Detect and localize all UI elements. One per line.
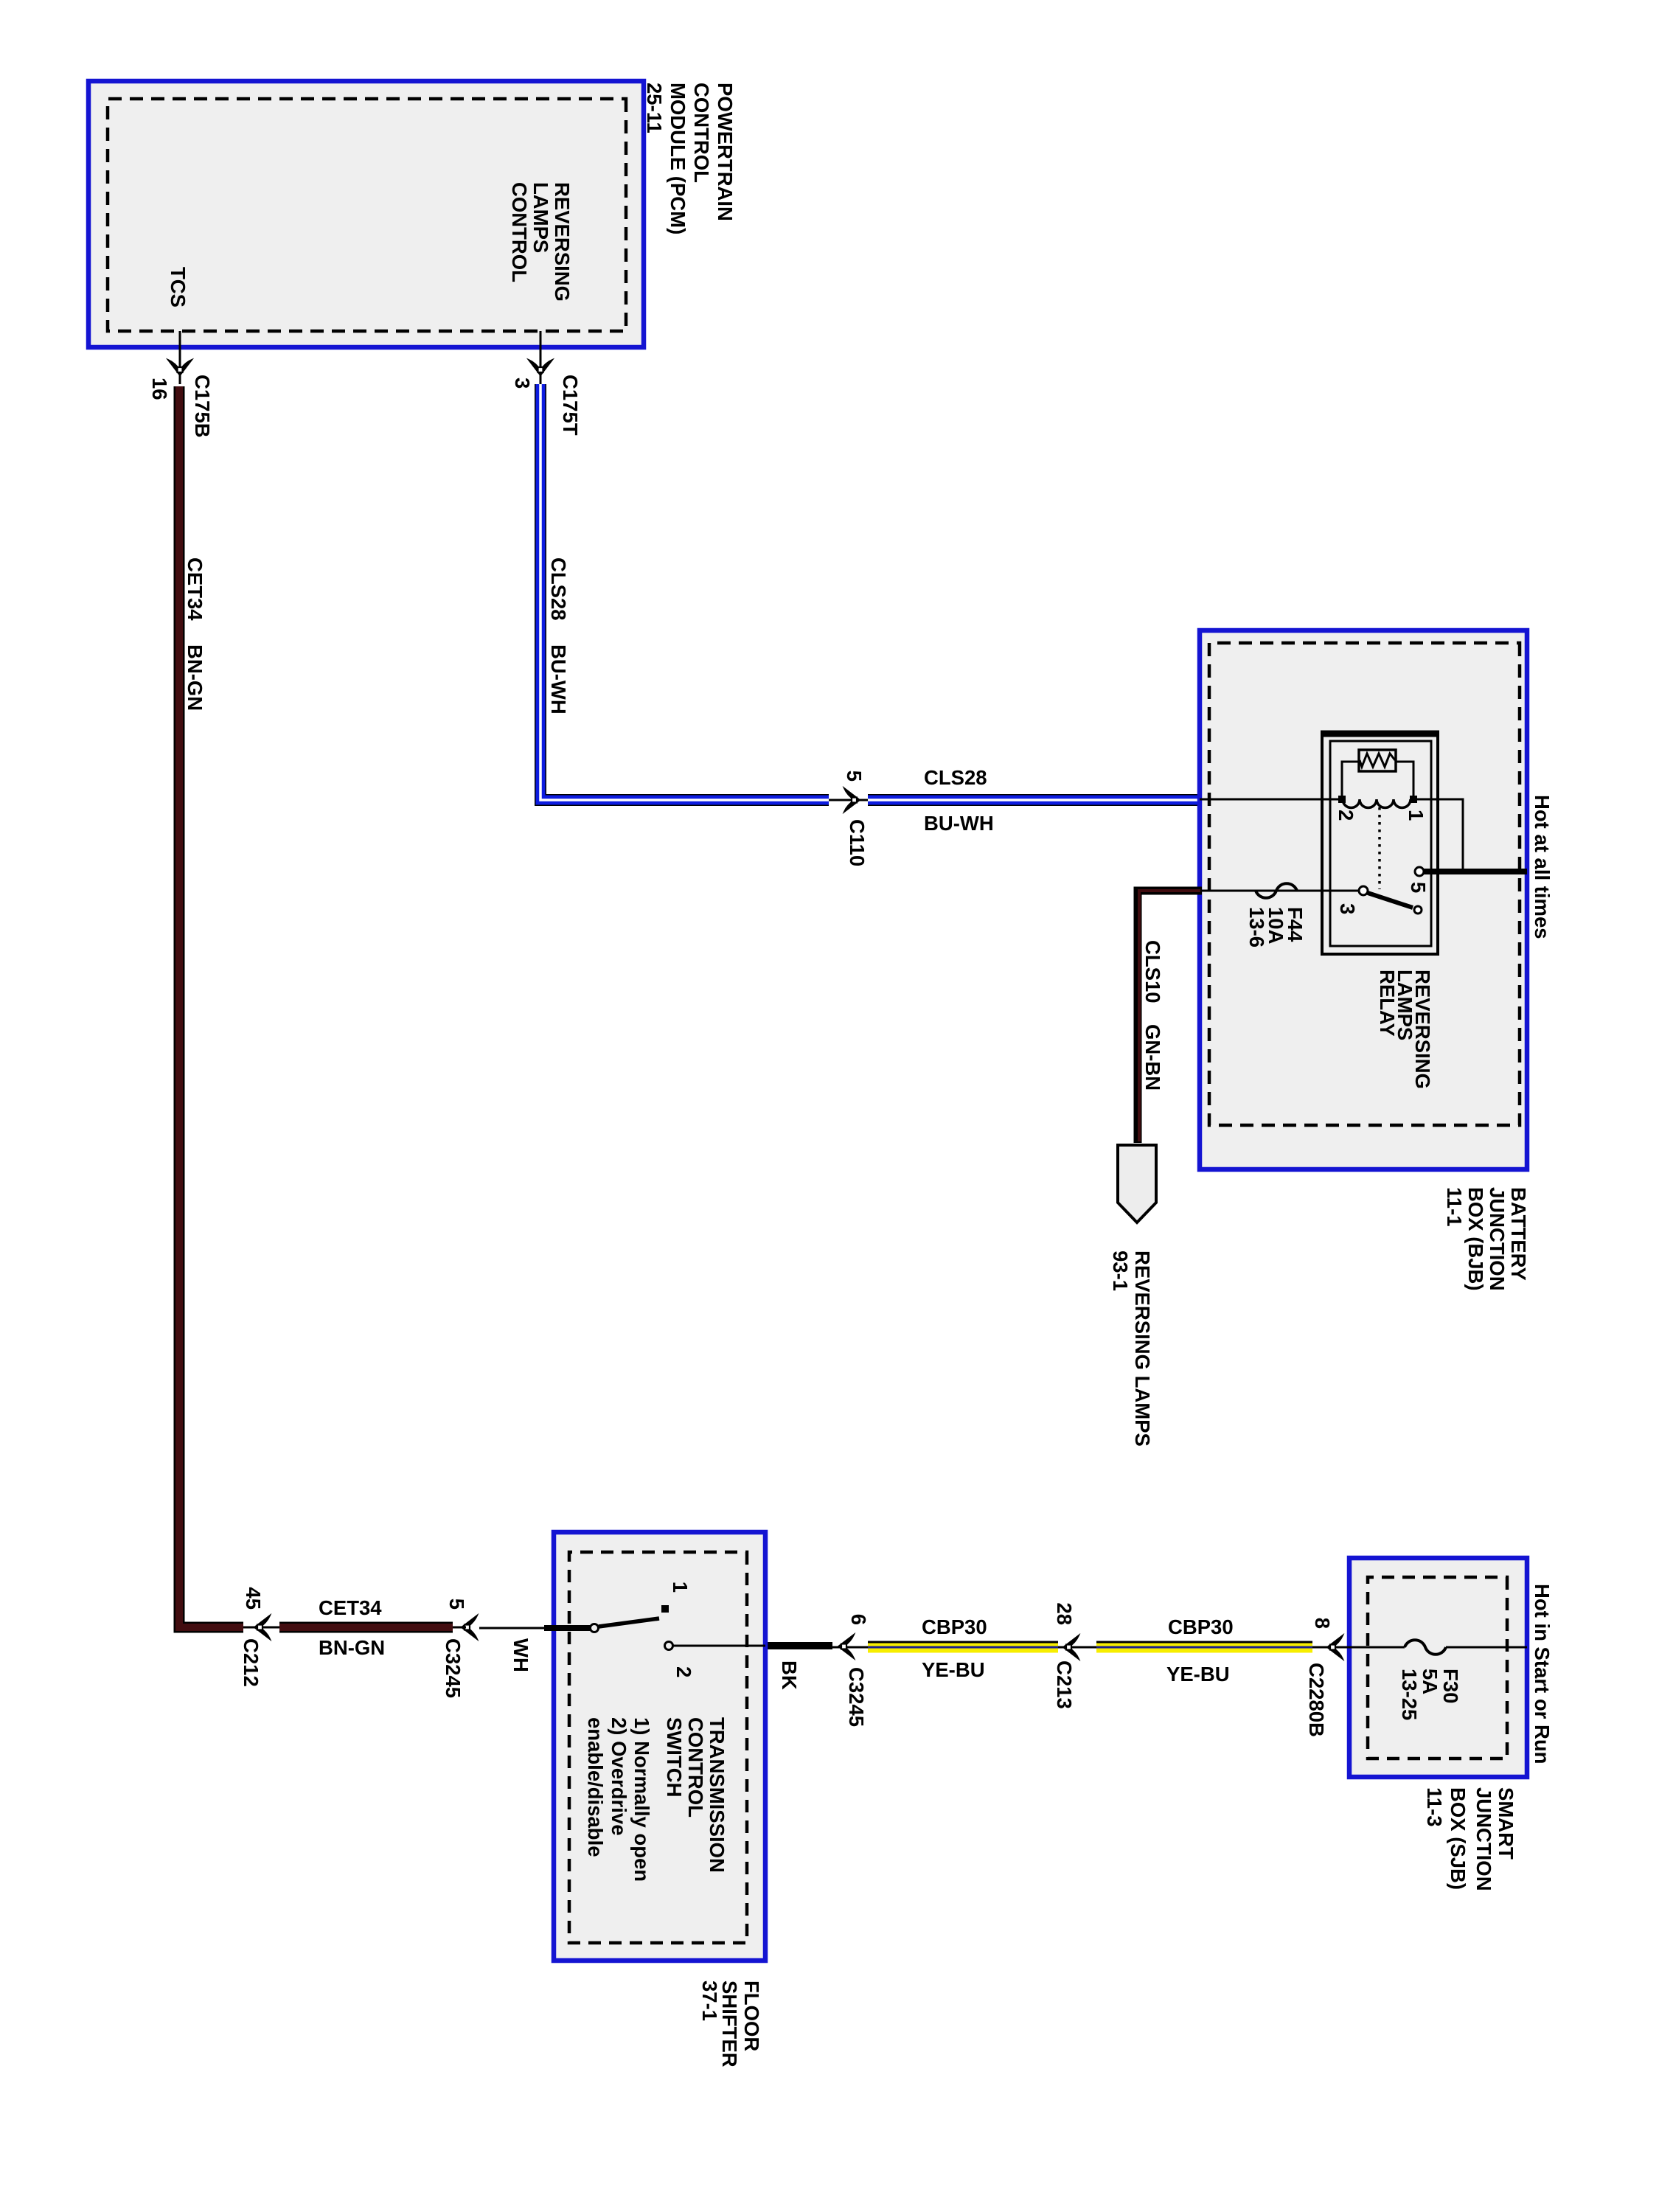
switch armature arm: [599, 1618, 659, 1627]
PCM module box (POWERTRAIN CONTROL MODULE): [88, 81, 644, 347]
relay pin 1 wire to pin 5 contact: [1413, 799, 1463, 872]
wire CLS10 GN-BN (thick) from BJB down then right to reversing lamps: [1138, 891, 1202, 1143]
FLOOR SHIFTER box (transmission control switch): [554, 1532, 765, 1961]
switch terminal 1 square: [661, 1605, 669, 1613]
label TRANSMISSION CONTROL SWITCH + notes: [584, 1717, 728, 1882]
relay coil (between pins 1 and 2): [1343, 799, 1413, 808]
SMART JUNCTION BOX (SJB): [1349, 1558, 1527, 1777]
svg-text:SWITCH: SWITCH: [663, 1717, 686, 1797]
svg-text:CBP30: CBP30: [922, 1615, 987, 1638]
relay inner box: [1330, 741, 1431, 946]
SJB fuse feed line: [1349, 1646, 1527, 1649]
svg-text:LAMPS: LAMPS: [529, 182, 552, 253]
wire CET34 BN-GN (brown-green) from PCM pin 16, long run right then up to C212: [179, 386, 243, 1627]
label REVERSING LAMPS RELAY: [1376, 970, 1434, 1089]
label FLOOR SHIFTER 37-1: [698, 1980, 763, 2067]
relay pin 5 contact circle: [1415, 867, 1424, 876]
svg-text:JUNCTION: JUNCTION: [1486, 1187, 1509, 1291]
svg-text:F30: F30: [1439, 1669, 1462, 1703]
label BATTERY JUNCTION BOX (BJB) 11-1: [1443, 1187, 1530, 1291]
relay pin 3 contact circle: [1359, 886, 1368, 895]
relay pin 2 terminal: [1338, 796, 1346, 803]
pin 3 lead wire out of PCM: [540, 331, 542, 384]
svg-text:BOX (BJB): BOX (BJB): [1464, 1187, 1487, 1291]
reversing lamps relay outer box: [1322, 732, 1438, 954]
off-page hollow arrow to REVERSING LAMPS: [1118, 1145, 1156, 1222]
wire CET34 BN-GN between C3245 and C212: [279, 1622, 453, 1633]
fuse F44 symbol: [1256, 883, 1297, 898]
svg-text:REVERSING LAMPS: REVERSING LAMPS: [1131, 1251, 1154, 1447]
relay coil feed wire from BJB edge to pin 2: [1200, 799, 1342, 801]
connector C2280B below SJB: [1312, 1646, 1349, 1649]
PCM inner dashed box: [108, 99, 626, 331]
svg-text:POWERTRAIN: POWERTRAIN: [714, 83, 737, 221]
svg-text:YE-BU: YE-BU: [922, 1658, 985, 1681]
label F44 10A 13-6: [1245, 907, 1307, 947]
svg-text:CONTROL: CONTROL: [690, 83, 713, 183]
svg-text:REVERSING: REVERSING: [551, 182, 574, 302]
svg-text:11-1: 11-1: [1443, 1187, 1466, 1227]
svg-text:25-11: 25-11: [643, 83, 666, 133]
svg-text:5A: 5A: [1419, 1669, 1441, 1694]
thick battery feed wire from pin 5 to box edge (Hot at all times): [1424, 869, 1527, 874]
relay armature arm: [1368, 893, 1413, 908]
svg-text:BK: BK: [778, 1660, 801, 1690]
label REVERSING LAMPS 93-1: [1109, 1251, 1154, 1447]
wire WH below floor shifter box: [479, 1627, 544, 1630]
svg-text:CONTROL: CONTROL: [508, 182, 531, 282]
svg-text:WH: WH: [509, 1638, 532, 1672]
svg-text:SMART: SMART: [1495, 1787, 1517, 1860]
svg-text:13-25: 13-25: [1398, 1669, 1421, 1720]
wire CLS28 BU-WH (blue-white) from PCM pin 3 right then up to BJB: [540, 384, 1200, 800]
svg-text:TRANSMISSION: TRANSMISSION: [706, 1717, 728, 1873]
svg-text:C3245: C3245: [845, 1667, 868, 1727]
pin 16 lead wire out of PCM: [179, 331, 181, 384]
svg-text:RELAY: RELAY: [1376, 970, 1399, 1037]
fuse F30 symbol: [1405, 1640, 1446, 1655]
svg-text:5: 5: [843, 771, 866, 782]
relay resistor R box: [1359, 750, 1396, 771]
svg-text:2) Overdrive: 2) Overdrive: [608, 1717, 630, 1836]
relay outer box thick left edge: [1321, 731, 1439, 737]
label SMART JUNCTION BOX (SJB) 11-3: [1423, 1787, 1517, 1891]
svg-text:3: 3: [511, 378, 534, 389]
svg-text:BOX (SJB): BOX (SJB): [1447, 1787, 1470, 1890]
svg-text:C3245: C3245: [442, 1638, 465, 1698]
svg-text:C2280B: C2280B: [1305, 1663, 1328, 1737]
svg-text:FLOOR: FLOOR: [740, 1980, 763, 2051]
floor shifter inner dashed box: [569, 1552, 747, 1943]
svg-text:BN-GN: BN-GN: [184, 644, 206, 711]
switch feed stub (thick) from box edge to pivot: [544, 1625, 590, 1631]
svg-text:13-6: 13-6: [1245, 907, 1268, 947]
svg-text:1: 1: [1405, 810, 1427, 821]
svg-text:TCS: TCS: [167, 267, 189, 307]
in-line connector C212: [243, 1627, 279, 1629]
svg-text:BATTERY: BATTERY: [1507, 1187, 1530, 1281]
BJB inner dashed box: [1209, 643, 1520, 1125]
svg-text:BU-WH: BU-WH: [547, 644, 570, 714]
svg-text:Hot in Start or Run: Hot in Start or Run: [1531, 1584, 1554, 1764]
svg-text:8: 8: [1311, 1618, 1334, 1629]
svg-text:1) Normally open: 1) Normally open: [630, 1717, 653, 1882]
svg-text:CET34: CET34: [184, 557, 206, 621]
svg-text:BN-GN: BN-GN: [319, 1636, 385, 1659]
svg-text:CET34: CET34: [319, 1596, 382, 1619]
BATTERY JUNCTION BOX (BJB): [1200, 630, 1527, 1169]
svg-text:5: 5: [445, 1599, 468, 1610]
svg-text:YE-BU: YE-BU: [1166, 1663, 1230, 1686]
pin 3 connector arrow C175T: [529, 360, 552, 375]
svg-text:1: 1: [669, 1582, 692, 1593]
wire CBP30 YE-BU (yellow-blue) C213 to C3245: [868, 1642, 1058, 1647]
in-line connector C110: [829, 799, 868, 801]
switch pin 2 wire inside box: [672, 1645, 765, 1647]
svg-text:CLS10: CLS10: [1141, 940, 1164, 1004]
svg-text:Hot at all times: Hot at all times: [1531, 795, 1554, 939]
svg-text:C175B: C175B: [191, 375, 214, 438]
svg-text:93-1: 93-1: [1109, 1251, 1132, 1291]
svg-text:enable/disable: enable/disable: [584, 1717, 607, 1857]
connector C3245 pin 6: [832, 1646, 868, 1649]
connector C3245 pin 5: [462, 1615, 477, 1639]
svg-text:JUNCTION: JUNCTION: [1472, 1787, 1495, 1891]
svg-text:BU-WH: BU-WH: [924, 812, 994, 835]
wire BK (black) into floor shifter switch: [765, 1642, 832, 1649]
svg-text:C212: C212: [240, 1638, 262, 1687]
relay resistor zigzag: [1360, 754, 1395, 767]
svg-text:2: 2: [1335, 810, 1357, 821]
label POWERTRAIN CONTROL MODULE (PCM) 25-11: [643, 83, 737, 234]
relay actuation dotted line from coil to armature: [1378, 807, 1381, 889]
svg-text:37-1: 37-1: [698, 1980, 721, 2021]
wire CBP30 YE-BU (yellow-blue) SJB to C213: [1096, 1642, 1312, 1647]
svg-text:CLS28: CLS28: [924, 766, 987, 789]
svg-text:28: 28: [1053, 1602, 1076, 1625]
svg-text:CLS28: CLS28: [547, 557, 570, 621]
svg-text:2: 2: [672, 1666, 695, 1677]
switch pivot circle: [591, 1624, 599, 1632]
relay armature tip circle: [1414, 906, 1422, 914]
svg-text:6: 6: [847, 1614, 870, 1625]
svg-text:CONTROL: CONTROL: [684, 1717, 707, 1818]
relay suppression resistor loop wiring: [1342, 762, 1413, 799]
svg-text:CBP30: CBP30: [1168, 1615, 1234, 1638]
switch terminal 2 circle: [665, 1642, 673, 1650]
svg-text:3: 3: [1336, 903, 1359, 914]
relay pin 1 terminal: [1410, 796, 1417, 803]
in-line connector C213: [1058, 1646, 1096, 1649]
svg-text:C213: C213: [1053, 1660, 1076, 1709]
SJB inner dashed box: [1368, 1577, 1507, 1759]
svg-text:C175T: C175T: [559, 375, 582, 436]
relay pin 3 wire down to fuse F44: [1200, 890, 1359, 892]
svg-text:GN-BN: GN-BN: [1141, 1024, 1164, 1091]
svg-text:5: 5: [1407, 882, 1430, 893]
svg-text:C110: C110: [846, 819, 869, 866]
svg-text:16: 16: [148, 378, 171, 400]
label REVERSING LAMPS CONTROL: [508, 182, 574, 302]
label F30 5A 13-25: [1398, 1669, 1462, 1720]
svg-text:MODULE (PCM): MODULE (PCM): [667, 83, 689, 234]
svg-text:11-3: 11-3: [1423, 1787, 1446, 1827]
pin 16 connector arrow C175B: [168, 360, 192, 375]
svg-text:45: 45: [242, 1587, 265, 1610]
